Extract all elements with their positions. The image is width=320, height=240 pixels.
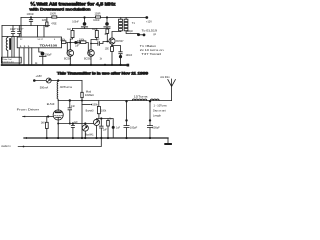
svg-text:BC550: BC550 xyxy=(84,58,92,60)
capacitor 100nF decoupling B xyxy=(106,16,108,18)
wire supply xyxy=(34,80,82,82)
transistor Q2 BC550 xyxy=(88,50,95,57)
resistor 1k2 Q2 xyxy=(96,29,98,31)
wire Q2 emitter xyxy=(90,56,92,64)
wire grid xyxy=(23,116,54,118)
transistor Q3 BC547 xyxy=(109,38,115,44)
svg-text:EL519: EL519 xyxy=(47,102,55,106)
svg-text:1k8: 1k8 xyxy=(41,122,46,125)
svg-text:1nF: 1nF xyxy=(71,105,76,108)
tube V1 EL519 xyxy=(57,101,59,111)
svg-text:100k: 100k xyxy=(93,103,99,106)
svg-text:100nF: 100nF xyxy=(72,21,79,23)
svg-text:100nF: 100nF xyxy=(93,20,100,22)
svg-text:100nF: 100nF xyxy=(126,55,133,57)
svg-text:15E: 15E xyxy=(105,49,110,51)
wire IC top pins xyxy=(21,26,44,38)
svg-text:100pF: 100pF xyxy=(45,54,52,57)
svg-text:100pF: 100pF xyxy=(130,125,138,129)
svg-text:500mA: 500mA xyxy=(40,86,49,90)
svg-text:+18V: +18V xyxy=(36,74,43,78)
svg-text:Length: Length xyxy=(153,114,161,118)
svg-text:100R: 100R xyxy=(50,12,56,15)
svg-text:BuzWt1: BuzWt1 xyxy=(85,134,94,137)
svg-text:Buzwt0: Buzwt0 xyxy=(86,109,95,112)
svg-text:470E: 470E xyxy=(51,24,57,26)
inductor tank coil xyxy=(6,37,8,58)
wire rail2b xyxy=(73,28,111,30)
wire to Q1 base xyxy=(66,43,81,54)
svg-text:1uF: 1uF xyxy=(116,127,121,130)
capacitor 500pF shunt xyxy=(147,101,152,139)
svg-text:40Turns: 40Turns xyxy=(60,85,73,89)
antenna xyxy=(168,79,176,101)
svg-text:1 - 10Turns: 1 - 10Turns xyxy=(154,104,168,108)
wire bottom rail xyxy=(24,137,168,139)
wire Q2 collector xyxy=(90,44,92,50)
capacitor 100nF emitter bypass xyxy=(111,45,113,47)
svg-text:1k2: 1k2 xyxy=(92,28,97,31)
resistor Mod 10Watt xyxy=(81,81,83,93)
svg-text:100pF: 100pF xyxy=(127,31,134,33)
ground xyxy=(167,138,169,143)
meter 500mA ammeter xyxy=(46,78,51,83)
svg-text:2x 10 turns on: 2x 10 turns on xyxy=(140,49,165,52)
meter M1 xyxy=(84,124,86,139)
node To EL519 g1 xyxy=(137,33,140,36)
svg-text:1uF: 1uF xyxy=(103,129,108,132)
wire Q1 collector xyxy=(69,43,71,50)
meter M2 in line xyxy=(93,119,99,125)
svg-text:1uF: 1uF xyxy=(75,45,80,47)
svg-text:Ant 30m: Ant 30m xyxy=(160,75,170,79)
node +12V xyxy=(145,16,148,19)
svg-text:To EL519: To EL519 xyxy=(142,29,159,32)
svg-text:This Transmitter is in use aft: This Transmitter is in use after Nov 11 … xyxy=(57,71,148,75)
wire Q1 emitter xyxy=(69,56,71,64)
svg-text:1uF: 1uF xyxy=(74,121,79,124)
wire IC bottom pins xyxy=(19,48,32,65)
svg-text:1nF: 1nF xyxy=(96,40,101,42)
svg-text:100R: 100R xyxy=(95,12,101,15)
capacitor 1uF bias xyxy=(112,126,115,129)
wire plate line xyxy=(58,100,171,102)
svg-text:T37 Toroid: T37 Toroid xyxy=(141,53,161,56)
label box Tube Coil xyxy=(1,57,21,63)
capacitor 1uF xyxy=(100,119,104,139)
svg-text:From Driver: From Driver xyxy=(17,108,40,112)
wire left edge xyxy=(1,26,3,65)
svg-text:1 1 1: 1 1 1 xyxy=(19,46,31,48)
node tank xyxy=(2,36,19,38)
svg-text:Tuned to 4,5: Tuned to 4,5 xyxy=(2,61,14,64)
svg-text:10Watt: 10Watt xyxy=(85,93,94,97)
resistor 1k2 Q1 xyxy=(72,29,74,31)
inductor 15Turns xyxy=(132,99,146,100)
svg-text:500pF: 500pF xyxy=(152,125,160,129)
svg-text:T1 =Balun: T1 =Balun xyxy=(140,45,157,48)
svg-text:TDA4100: TDA4100 xyxy=(40,44,58,48)
capacitor 1nF series xyxy=(91,42,109,46)
node rail dot xyxy=(30,16,32,18)
svg-text:15Turns: 15Turns xyxy=(134,94,149,98)
transistor Q1 BC550 xyxy=(67,50,74,57)
wire cathode xyxy=(58,120,93,138)
transformer T1 xyxy=(120,18,122,32)
capacitor 100nF decoupling A xyxy=(83,16,85,18)
svg-text:100k: 100k xyxy=(101,109,107,112)
svg-text:Dep on ant: Dep on ant xyxy=(153,109,166,113)
wire audio in xyxy=(18,138,101,147)
inductor output coil xyxy=(150,99,159,100)
capacitor 100pF below IC xyxy=(39,48,43,52)
capacitor 1nF cathode xyxy=(71,124,74,139)
ground bus top schematic xyxy=(1,64,129,66)
svg-text:+12V: +12V xyxy=(146,21,152,24)
svg-text:BC547: BC547 xyxy=(116,40,124,43)
op-amp U1 TDA4100 xyxy=(17,37,61,48)
svg-text:100nF: 100nF xyxy=(27,12,35,16)
svg-text:10nF*: 10nF* xyxy=(17,28,23,31)
capacitor 1uF coupling xyxy=(74,41,77,44)
svg-text:Audio In: Audio In xyxy=(1,144,11,148)
svg-text:1k2: 1k2 xyxy=(67,28,72,31)
resistor 4k7 xyxy=(106,28,108,31)
capacitor 1nF anode xyxy=(68,101,72,124)
svg-text:14-17: 14-17 xyxy=(37,39,43,41)
resistor 1k xyxy=(107,120,110,126)
svg-text:with Downward modulation: with Downward modulation xyxy=(30,6,91,11)
inductor tank secondary xyxy=(12,37,14,58)
wire rail2 left xyxy=(2,25,50,27)
capacitor 100pF shunt xyxy=(124,101,129,139)
resistor 1k8 grid leak xyxy=(46,117,48,123)
core bar xyxy=(9,38,11,50)
potentiometer 100k xyxy=(98,101,100,107)
wire to Q2 base xyxy=(86,43,88,54)
resistor 15E emitter xyxy=(111,44,113,46)
wire +12V rail xyxy=(21,17,147,19)
wire corner left xyxy=(20,18,22,38)
node xyxy=(57,79,59,81)
wire Q3 collector xyxy=(112,32,121,38)
inductor 40Turns choke xyxy=(57,81,58,101)
